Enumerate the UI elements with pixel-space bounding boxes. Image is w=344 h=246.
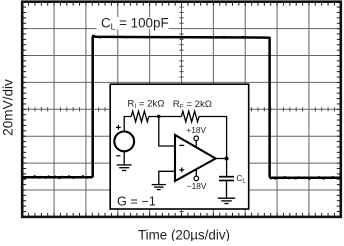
op-amp U1 triangle [175, 135, 216, 181]
svg-text:G = −1: G = −1 [117, 194, 156, 208]
node A junction dot [157, 115, 161, 119]
source V1 circle [114, 132, 134, 152]
wire: op-amp output [216, 158, 227, 160]
wire: feedback node to inverting input [159, 117, 175, 147]
label CL = 100pF [97, 15, 169, 31]
ground at non-inverting input [152, 185, 166, 190]
center axis cross ticks [29, 7, 335, 211]
edge minor ticks [24, 3, 340, 216]
source V1 plus sign [116, 125, 121, 130]
waveform trace noise [23, 176, 90, 179]
op-amp non-inverting input plus sign [179, 167, 184, 172]
+18V terminal circle [194, 136, 199, 141]
wire: source top to RI [124, 117, 131, 132]
svg-text:RI = 2kΩ: RI = 2kΩ [127, 99, 164, 111]
svg-text:−18V: −18V [187, 181, 207, 191]
wire: +18V terminal to op-amp [195, 141, 197, 148]
wire: RF to output node [199, 117, 227, 159]
op-amp inverting input minus sign [179, 144, 184, 146]
capacitor CL plates [219, 177, 234, 181]
svg-text:RF = 2kΩ: RF = 2kΩ [173, 99, 212, 111]
waveform trace [22, 36, 341, 178]
ground below source [117, 165, 132, 171]
svg-text:+18V: +18V [186, 125, 206, 135]
output node junction dot [225, 157, 229, 161]
wire: output node to capacitor CL [226, 159, 228, 177]
wire: capacitor CL to ground [226, 181, 228, 198]
wire: source bottom to ground [123, 151, 125, 164]
svg-text:Time (20µs/div): Time (20µs/div) [138, 227, 230, 241]
svg-text:20mV/div: 20mV/div [0, 79, 15, 136]
wire: op-amp to -18V terminal [195, 170, 197, 177]
-18V terminal circle [194, 176, 199, 181]
resistor RF [181, 111, 199, 122]
inset circuit box [110, 84, 249, 209]
source V1 minus sign [116, 155, 120, 157]
wire: non-inverting input to ground [159, 171, 175, 184]
resistor RI [131, 111, 149, 122]
ground below capacitor CL [218, 198, 235, 203]
wire: RI to node A [149, 116, 182, 118]
